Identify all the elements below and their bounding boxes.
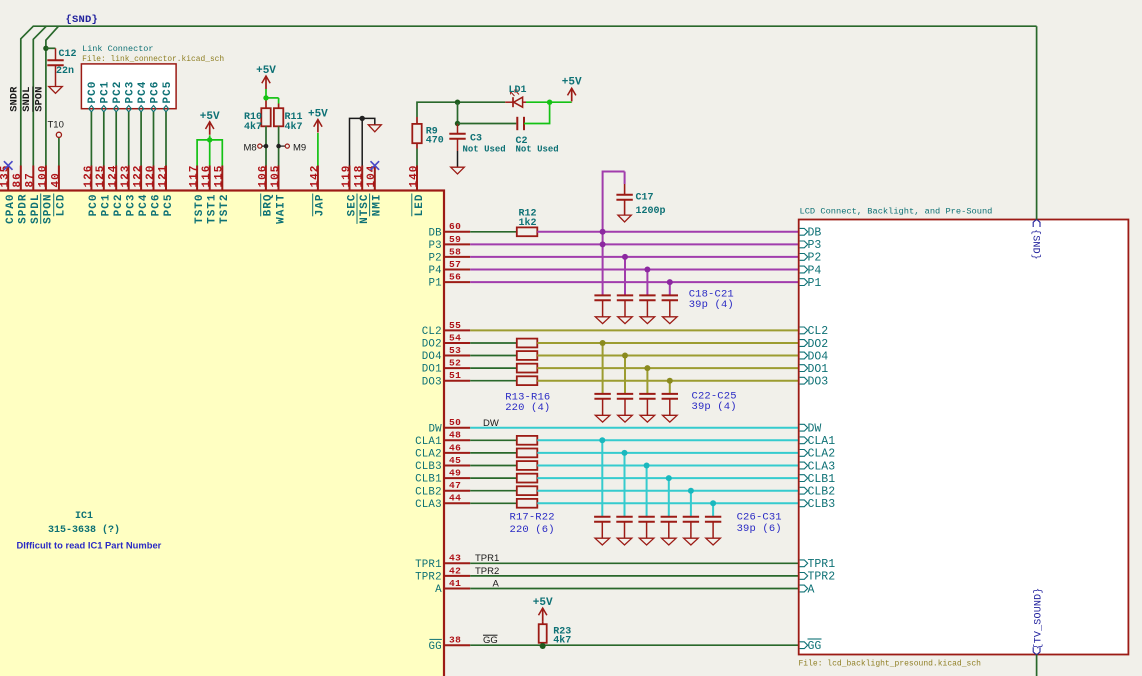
capacitor C28 [638, 517, 654, 538]
svg-text:220 (6): 220 (6) [510, 524, 555, 536]
resistor R19 [517, 461, 538, 470]
svg-text:CL2: CL2 [808, 325, 829, 338]
pin 122 (PC4) [133, 165, 150, 217]
IC IC1 body [0, 191, 444, 676]
svg-text:A: A [808, 583, 815, 596]
wire CLA3 [537, 502, 798, 504]
svg-text:52: 52 [449, 358, 461, 369]
svg-text:53: 53 [449, 345, 461, 356]
wire P3 [470, 243, 799, 245]
svg-text:P4: P4 [808, 264, 822, 277]
wire DO2 [537, 342, 798, 344]
ground below C27 [617, 538, 632, 545]
junction C28 [644, 463, 650, 469]
capacitor C23 tap wire [624, 356, 626, 394]
pin 44 (CLA3) [415, 493, 470, 511]
pin 40 (LCD) [50, 166, 67, 217]
capacitor C24 [639, 394, 655, 415]
junction C30 [688, 488, 694, 494]
sheet pin PC4 on Link Connector [137, 81, 149, 112]
svg-text:P2: P2 [808, 252, 822, 265]
resistor R14 [517, 351, 538, 360]
sheet pin P4 [800, 264, 822, 277]
svg-text:DO2: DO2 [808, 338, 829, 351]
no-connect X on pin 104 [371, 161, 380, 170]
svg-text:+5V: +5V [562, 77, 582, 89]
power +5V [256, 65, 276, 89]
capacitor C21 [662, 295, 678, 316]
capacitor C17 [616, 172, 665, 218]
svg-text:43: 43 [449, 553, 461, 564]
note C18-C21 39p (4) [689, 289, 734, 312]
svg-text:P2: P2 [428, 253, 441, 265]
wire DO4 [537, 355, 798, 357]
resistor R17 [517, 436, 538, 445]
junction C23 [622, 353, 628, 359]
svg-text:TST0: TST0 [194, 194, 206, 224]
sheet pin P2 [800, 252, 822, 265]
svg-text:PC2: PC2 [113, 194, 125, 217]
svg-text:123: 123 [120, 165, 132, 188]
svg-text:45: 45 [449, 455, 461, 466]
wire +5V to pin 142 [317, 133, 319, 166]
sheet pin P1 [800, 277, 822, 290]
wire R9 to LD1 [417, 102, 505, 124]
pin 56 (P1) [428, 272, 470, 290]
sheet LCD Connect, Backlight, and Pre-Sound [799, 207, 1129, 669]
resistor R18 [517, 449, 538, 458]
svg-text:LCD: LCD [56, 194, 68, 217]
wire PC2 [115, 112, 117, 166]
svg-text:CLB2: CLB2 [808, 486, 836, 499]
sheet pin A [800, 583, 815, 596]
pin 54 (DO2) [422, 332, 470, 350]
svg-text:115: 115 [214, 165, 226, 188]
svg-text:PC1: PC1 [101, 194, 113, 217]
svg-text:DB: DB [428, 227, 442, 239]
wire C17 tap [603, 172, 625, 232]
ground below C22 [595, 415, 610, 422]
svg-text:DIfficult to read IC1 Part Num: DIfficult to read IC1 Part Number [17, 540, 162, 551]
ground below C29 [662, 538, 677, 545]
label SNDL [21, 87, 33, 112]
svg-text:DO3: DO3 [808, 376, 829, 389]
svg-text:DO4: DO4 [422, 351, 442, 363]
svg-text:A: A [435, 584, 442, 596]
ground below C31 [706, 538, 721, 545]
svg-text:118: 118 [354, 165, 366, 188]
svg-text:DW: DW [428, 423, 442, 435]
capacitor C27 tap wire [624, 453, 626, 517]
pin 47 (CLB2) [415, 480, 470, 498]
note C26-C31 39p (6) [737, 512, 782, 536]
junction C21 [667, 279, 673, 285]
capacitor C22 [594, 394, 610, 415]
svg-text:SPON: SPON [43, 194, 55, 224]
svg-text:C17: C17 [636, 193, 654, 204]
pin 42 (TPR2) [415, 565, 470, 583]
junction C22 [600, 340, 606, 346]
sheet pin PC1 on Link Connector [100, 81, 112, 112]
label GG [483, 635, 498, 646]
pin 135 (CPA0) [0, 161, 17, 224]
svg-text:CL2: CL2 [422, 326, 442, 338]
svg-text:NMI: NMI [372, 194, 384, 217]
wire PC3 [128, 112, 130, 166]
wire CLA2 [537, 452, 798, 454]
sheet pin CL2 [800, 325, 829, 338]
capacitor C29 [661, 517, 677, 538]
svg-text:PC2: PC2 [112, 81, 124, 104]
pin 126 (PC0) [83, 165, 100, 217]
pin 45 (CLB3) [415, 455, 470, 473]
pin 48 (CLA1) [415, 430, 470, 448]
wire DO3 [537, 380, 798, 382]
junction C26 [599, 437, 605, 443]
pin 121 (PC5) [157, 165, 174, 217]
svg-text:57: 57 [449, 259, 461, 270]
svg-text:48: 48 [449, 430, 461, 441]
wire CLB3 [537, 465, 798, 467]
capacitor C23 [617, 394, 633, 415]
svg-text:126: 126 [83, 165, 95, 188]
wire P2 [470, 256, 799, 258]
wire TPR1 [470, 562, 799, 564]
wire pin to R17 [470, 439, 517, 441]
ground below C28 [639, 538, 654, 545]
junction C19 [622, 254, 628, 260]
resistor R23 [539, 624, 572, 646]
svg-text:54: 54 [449, 332, 461, 343]
capacitor C28 tap wire [646, 466, 648, 517]
testpoint M8 [244, 142, 269, 153]
wire TV_SOUND below sheet [1036, 655, 1038, 676]
sheet pin PC2 on Link Connector [112, 81, 124, 112]
svg-text:PC0: PC0 [87, 81, 99, 104]
sheet pin TPR2 [800, 571, 836, 584]
capacitor C19 tap wire [624, 257, 626, 296]
svg-text:C12: C12 [59, 49, 77, 60]
svg-text:142: 142 [309, 165, 321, 188]
svg-text:4k7: 4k7 [285, 121, 303, 133]
wire R11 to pin 105 [278, 126, 280, 165]
svg-text:P1: P1 [428, 278, 441, 290]
svg-text:PC6: PC6 [149, 81, 161, 104]
capacitor C24 tap wire [646, 368, 648, 394]
ground below C30 [684, 538, 699, 545]
ground below C24 [640, 415, 655, 422]
svg-text:TST1: TST1 [207, 194, 219, 224]
svg-text:M8: M8 [244, 142, 257, 153]
svg-text:WAIT: WAIT [275, 194, 287, 224]
ground below C18 [595, 317, 610, 324]
svg-text:T10: T10 [48, 120, 64, 131]
wire +5V stem LED [571, 101, 573, 104]
junction C20 [644, 267, 650, 273]
wire pin to R21 [470, 490, 517, 492]
junction on SPON wire [43, 46, 48, 51]
wire P1 [470, 281, 799, 283]
resistor R15 [517, 364, 538, 373]
LED LD1 [505, 85, 526, 107]
svg-text:CLA2: CLA2 [808, 448, 836, 461]
svg-text:DW: DW [483, 418, 499, 429]
svg-text:PC4: PC4 [138, 194, 150, 217]
capacitor C31 [705, 517, 721, 538]
wire P4 [470, 269, 799, 271]
svg-text:42: 42 [449, 565, 461, 576]
ground below C19 [618, 317, 633, 324]
svg-text:SNDL: SNDL [21, 87, 33, 112]
pin 116 (TST1) [201, 165, 218, 224]
ground below C17 [618, 215, 631, 222]
IC1 reference and value [48, 511, 120, 536]
sheet pin PC3 on Link Connector [125, 81, 137, 112]
svg-text:DO3: DO3 [422, 376, 442, 388]
wire DO1 [537, 367, 798, 369]
svg-text:39p (4): 39p (4) [689, 299, 734, 311]
wire PC0 [90, 112, 92, 166]
svg-text:CLB3: CLB3 [808, 498, 836, 511]
wire C3 to ground [457, 151, 459, 167]
pin 87 (SPDL) [25, 166, 42, 224]
capacitor C30 tap wire [690, 491, 692, 517]
wire SNDR [21, 26, 1037, 165]
svg-text:49: 49 [449, 468, 461, 479]
wire LCD to T10 [58, 138, 60, 166]
svg-text:22n: 22n [56, 66, 74, 77]
wire pin to R20 [470, 477, 517, 479]
junction C31 [710, 500, 716, 506]
svg-text:CLA1: CLA1 [808, 435, 836, 448]
svg-text:120: 120 [145, 165, 157, 188]
pin 105 (WAIT) [270, 165, 287, 224]
pin 142 (JAP) [309, 165, 326, 217]
svg-text:{SND}: {SND} [1030, 229, 1042, 260]
svg-text:CPA0: CPA0 [5, 194, 17, 224]
junction R23 GG [540, 643, 546, 649]
svg-text:39p (4): 39p (4) [692, 401, 737, 413]
wire CLB2 [537, 490, 798, 492]
pin 140 (LED) [408, 165, 425, 217]
capacitor C18 [594, 295, 610, 316]
wire +5V to TST pins [197, 135, 222, 165]
pin 123 (PC3) [120, 165, 137, 217]
wire pin to R13 [470, 342, 517, 344]
sheet pin CLA1 [800, 435, 836, 448]
capacitor C25 [662, 394, 678, 415]
junction at C2 right [547, 100, 552, 105]
svg-text:LCD Connect, Backlight, and Pr: LCD Connect, Backlight, and Pre-Sound [800, 207, 993, 217]
capacitor C20 [639, 295, 655, 316]
pin 41 (A) [435, 578, 470, 596]
svg-text:P3: P3 [428, 240, 441, 252]
pin 86 (SPDR) [12, 166, 29, 224]
svg-text:470: 470 [426, 136, 444, 147]
sheet pin CLB2 [800, 486, 836, 499]
pin 60 (DB) [428, 221, 470, 239]
svg-text:41: 41 [449, 578, 461, 589]
pin 115 (TST2) [214, 165, 231, 224]
ground below C25 [663, 415, 678, 422]
ground below C23 [618, 415, 633, 422]
svg-text:TPR1: TPR1 [475, 553, 499, 564]
capacitor C19 [617, 295, 633, 316]
svg-text:P3: P3 [808, 239, 822, 252]
svg-text:50: 50 [449, 417, 461, 428]
resistor R21 [517, 486, 538, 495]
svg-text:{TV_SOUND}: {TV_SOUND} [1032, 587, 1044, 649]
capacitor C22 tap wire [602, 343, 604, 394]
capacitor C21 tap wire [669, 282, 671, 295]
pin 119 (SEC) [341, 165, 358, 217]
pin 104 (NMI) [366, 161, 383, 216]
capacitor C27 [616, 517, 632, 538]
sheet pin GG [800, 639, 822, 653]
svg-text:PC4: PC4 [137, 81, 149, 104]
svg-text:315-3638 (?): 315-3638 (?) [48, 524, 120, 536]
svg-text:DW: DW [808, 423, 822, 436]
capacitor C31 tap wire [712, 503, 714, 517]
sheet pin {TV_SOUND} [1032, 587, 1044, 654]
svg-text:Link Connector: Link Connector [82, 44, 153, 54]
svg-text:IC1: IC1 [75, 511, 93, 522]
capacitor C20 tap wire [646, 270, 648, 296]
svg-text:TPR1: TPR1 [415, 559, 442, 571]
svg-text:CLA1: CLA1 [415, 436, 442, 448]
wire LD1 to +5V [526, 101, 572, 103]
sheet pin CLA2 [800, 448, 836, 461]
pin 120 (PC6) [145, 165, 162, 217]
power +5V [308, 109, 328, 133]
ground below C20 [640, 317, 655, 324]
svg-text:CLB1: CLB1 [808, 473, 836, 486]
wire pin to R22 [470, 502, 517, 504]
wire A [470, 588, 799, 590]
svg-text:PC3: PC3 [125, 81, 137, 104]
svg-text:A: A [493, 578, 500, 589]
svg-text:4k7: 4k7 [553, 634, 571, 646]
hierarchical label {SND} [66, 14, 99, 26]
resistor R20 [517, 474, 538, 483]
pin 46 (CLA2) [415, 442, 470, 460]
wire SNDL [33, 26, 46, 165]
ground at SEC NTSC [368, 125, 381, 132]
sheet pin CLB1 [800, 473, 836, 486]
svg-text:DO1: DO1 [808, 363, 829, 376]
wire C2 to junction [524, 102, 550, 123]
wire CLB1 [537, 477, 798, 479]
capacitor C26 [594, 517, 610, 538]
junction C25 [667, 378, 673, 384]
svg-text:1k2: 1k2 [519, 217, 537, 229]
junction TST [207, 137, 212, 142]
svg-text:TST2: TST2 [219, 194, 231, 224]
svg-text:140: 140 [408, 165, 420, 188]
svg-text:CLA2: CLA2 [415, 449, 442, 461]
svg-text:TPR2: TPR2 [808, 571, 836, 584]
capacitor C18 tap wire [602, 232, 604, 296]
svg-text:DO1: DO1 [422, 364, 442, 376]
wire CL2 [470, 329, 799, 331]
svg-text:119: 119 [341, 165, 353, 188]
testpoint M9 [276, 142, 306, 153]
wire R23 stem [542, 621, 544, 645]
svg-text:LED: LED [414, 194, 426, 217]
no-connect X on pin 135 [4, 161, 13, 170]
power +5V [533, 597, 553, 621]
pin 43 (TPR1) [415, 553, 470, 571]
capacitor C2 (Not Used) [458, 117, 559, 155]
capacitor C29 tap wire [668, 478, 670, 517]
resistor R16 [517, 376, 538, 385]
power +5V [200, 111, 220, 135]
svg-text:PC3: PC3 [126, 194, 138, 217]
svg-text:4k7: 4k7 [244, 121, 262, 133]
resistor R13 [517, 339, 538, 348]
svg-text:38: 38 [449, 635, 461, 646]
junction NTSC [360, 116, 365, 121]
svg-text:BRQ: BRQ [263, 194, 275, 217]
svg-text:87: 87 [25, 172, 37, 187]
capacitor C3 (Not Used) [449, 124, 505, 155]
svg-text:GG: GG [483, 635, 498, 646]
pin 59 (P3) [428, 234, 470, 252]
label SNDR [9, 86, 21, 112]
wire DB [537, 231, 798, 233]
sheet pin DO4 [800, 350, 829, 363]
wire pin 60 to R12 [470, 231, 517, 233]
wire pin 140 to R9 [416, 143, 418, 165]
pin 38 (GG) [428, 635, 470, 653]
svg-text:106: 106 [257, 165, 269, 188]
svg-text:P4: P4 [428, 265, 441, 277]
svg-text:60: 60 [449, 221, 461, 232]
sheet pin DO2 [800, 338, 829, 351]
capacitor C12 [47, 48, 76, 86]
svg-text:51: 51 [449, 370, 461, 381]
sheet pin DB [800, 227, 822, 240]
wire junction down to C2 tap [457, 102, 459, 123]
svg-text:{SND}: {SND} [66, 14, 99, 26]
svg-text:124: 124 [108, 165, 120, 188]
svg-text:File: link_connector.kicad_sch: File: link_connector.kicad_sch [82, 55, 224, 64]
ground below C26 [595, 538, 610, 545]
svg-text:40: 40 [50, 172, 62, 187]
pin 53 (DO4) [422, 345, 470, 363]
svg-text:PC0: PC0 [88, 194, 100, 217]
pin 117 (TST0) [189, 165, 206, 224]
svg-text:55: 55 [449, 320, 461, 331]
wire pin to R15 [470, 367, 517, 369]
svg-text:58: 58 [449, 246, 461, 257]
sheet pin DO1 [800, 363, 829, 376]
testpoint T10 [48, 120, 64, 138]
pin 58 (P2) [428, 246, 470, 264]
svg-text:JAP: JAP [315, 194, 327, 217]
resistor R11 [274, 108, 303, 133]
svg-text:TPR1: TPR1 [808, 558, 836, 571]
wire SPON [46, 26, 59, 165]
junction C27 [622, 450, 628, 456]
svg-text:220 (4): 220 (4) [505, 402, 550, 414]
pin 50 (DW) [428, 417, 470, 435]
wire PC4 [140, 112, 142, 166]
resistor R22 [517, 499, 538, 508]
ground below C21 [663, 317, 678, 324]
sheet pin PC6 on Link Connector [149, 81, 161, 112]
wire DW [470, 427, 799, 429]
